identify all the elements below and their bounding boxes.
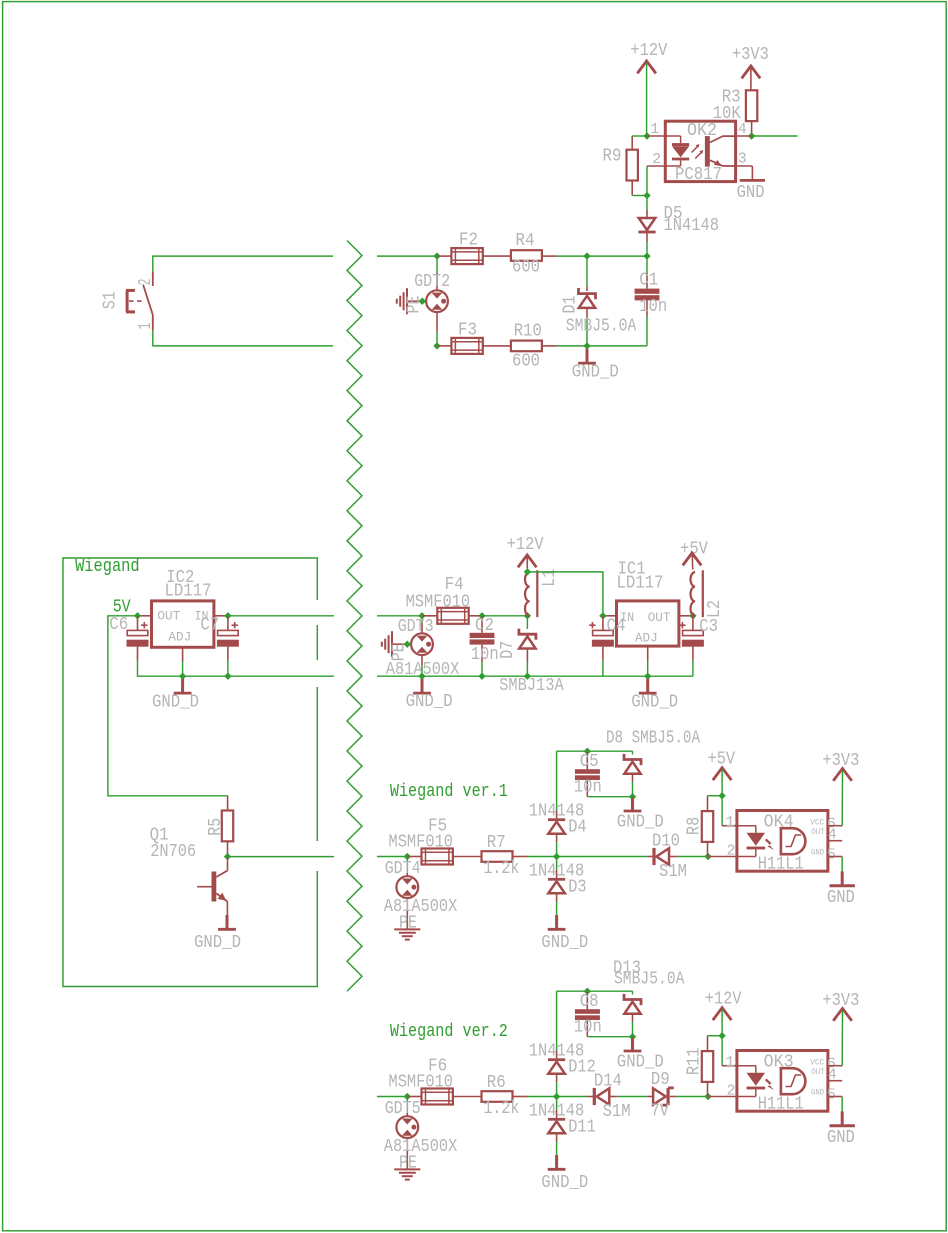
node R11 bottom [704,1093,711,1100]
wire C2 node to L1 node [482,615,527,617]
wire 5V net [108,616,228,796]
ground GND_D Q1 [226,915,229,928]
node IC1 IN [599,612,606,619]
svg-text:GND: GND [827,1128,855,1148]
wire pin5 to ground [841,857,843,872]
power +12V arrow [713,1008,732,1020]
node L1 bottom [524,612,531,619]
wire R3 to pin4 [751,121,753,136]
ground GND OK4 [841,871,844,884]
svg-text:D10: D10 [652,831,680,851]
fuse F6 [407,1096,422,1098]
ground GND_D row1 [586,349,589,362]
svg-text:H11L1: H11L1 [758,1094,804,1114]
svg-text:PE: PE [404,296,424,314]
capacitor C2 [481,616,483,633]
svg-text:GND: GND [737,183,765,203]
transistor Q1 [227,857,229,871]
svg-text:2N706: 2N706 [150,842,196,862]
svg-text:C8: C8 [580,992,599,1012]
node C2 top [478,612,485,619]
resistor R3 [746,90,757,121]
wire cable to GDT5 [377,1096,407,1098]
capacitor C8 [586,991,588,1009]
node IC2 IN [224,612,231,619]
svg-text:SMBJ5.0A: SMBJ5.0A [614,969,685,989]
svg-text:SMBJ5.0A: SMBJ5.0A [566,316,637,336]
OK2 internal light arrows [692,146,703,159]
node IC1 OUT [689,612,696,619]
svg-text:R8: R8 [685,817,705,835]
wire R9 bottom [631,181,633,196]
node IC2 OUT [134,612,141,619]
svg-text:LD117: LD117 [617,573,664,593]
wire clamp node to D14 [557,1096,587,1098]
svg-text:10n: 10n [471,645,499,665]
svg-text:OUT: OUT [157,609,180,624]
pin 4 OK2 [736,135,752,137]
capacitor C7 [227,616,229,631]
node C2 bottom [478,673,485,680]
svg-text:D14: D14 [594,1071,622,1091]
node clamp junction [553,853,560,860]
wire L1 to IC1 IN [527,572,603,616]
power +12V arrow [637,61,656,73]
switch S1 lever [143,285,153,315]
switch S1 pin 1 [152,315,154,331]
node D8 ground [629,793,636,800]
svg-text:OK3: OK3 [764,1053,794,1073]
svg-text:F3: F3 [458,321,477,341]
node ADJ ground [179,673,186,680]
svg-text:4: 4 [738,121,747,138]
gas discharge tube GDT4 [406,857,408,864]
wire D1 node to C1 node [587,255,647,257]
ground GND_D GDT3 [421,679,424,692]
switch S1 dashed link [129,300,144,302]
node C7 ground [224,673,231,680]
resistor R7 [482,851,513,862]
ground GND OK3 [841,1111,844,1124]
resistor R5 [222,811,233,842]
svg-text:OUT: OUT [811,827,825,837]
svg-text:+12V: +12V [507,535,544,555]
svg-text:600: 600 [512,351,540,371]
wire supply to pin1 [721,1010,723,1036]
svg-text:R5: R5 [206,818,226,836]
wire F5 to R7 [453,856,482,858]
svg-text:7V: 7V [651,1102,669,1122]
node R9-D5 junction [643,192,650,199]
node GND_D row1 [583,342,590,349]
ground GND_D IC2 [181,679,184,692]
svg-text:1: 1 [650,121,659,138]
fuse F2 [437,255,451,257]
svg-text:GND: GND [827,888,855,908]
svg-text:600: 600 [512,257,540,277]
wire middle ground rail [377,675,693,677]
capacitor C3 [692,616,694,631]
earth PE at GDT2 [407,300,422,302]
svg-text:D4: D4 [568,818,586,838]
earth PE at GDT4 [394,928,420,930]
power +5V arrow [713,768,732,780]
svg-text:D8 SMBJ5.0A: D8 SMBJ5.0A [606,728,700,748]
zener diode D9 [647,1096,653,1098]
svg-text:1.2k: 1.2k [483,1099,519,1119]
switch S1 fixed contact [126,290,129,312]
svg-text:GND_D: GND_D [631,693,678,713]
wire cable to GDT3 [377,615,422,617]
wire R7 to clamp node [513,856,527,858]
wire F6 to R6 [453,1096,482,1098]
wire +3V3 to pin6 [841,770,843,825]
wire row1 to F2 [377,255,437,257]
node clamp junction [553,1093,560,1100]
node GDT2 top [433,252,440,259]
diode D12 [556,991,558,1050]
svg-text:GND: GND [811,1087,824,1097]
svg-text:C2: C2 [475,616,494,636]
zener diode D7 [526,616,528,629]
svg-text:2: 2 [136,279,156,286]
fuse F4 [422,615,437,617]
node Q1 collector [224,853,231,860]
fuse F3 [437,345,451,347]
svg-text:10n: 10n [574,1018,602,1038]
svg-text:1: 1 [136,322,156,329]
svg-text:PC817: PC817 [675,165,722,185]
wire +3V3 to R3 [750,68,752,91]
wire clamp rail [557,750,633,752]
svg-text:S1M: S1M [659,862,687,882]
pin 2 OK2 [647,165,665,167]
node pin1 junction [643,132,650,139]
voltage regulator IC2 body [152,601,214,647]
wire pin5 to ground [841,1097,843,1112]
node GDT2 bottom [433,342,440,349]
svg-text:1N4148: 1N4148 [664,216,720,236]
power +3V3 arrow OK3 [833,1008,852,1020]
cable boundary zigzag [347,241,362,992]
wire pin4 stub right [752,135,798,137]
gas discharge tube GDT5 [406,1097,408,1104]
OK4 internal LED [737,825,756,827]
wire R10 to GND node [542,345,557,347]
OK4 internal bolt [765,839,774,851]
earth PE at GDT5 [394,1168,420,1170]
wire S1 pin1 to cable bottom [153,331,333,346]
wire IN net to cable [228,615,334,617]
wire F2 to R4 [483,255,512,257]
node supply junction [718,792,725,799]
wire R9 top [631,136,633,150]
wire 5V to R5 [227,796,229,811]
svg-text:GND_D: GND_D [152,693,199,713]
svg-text:+12V: +12V [630,41,667,61]
node GDT3 top [418,612,425,619]
node IC1 ADJ ground [644,673,651,680]
node pin4 junction [748,132,755,139]
svg-text:OK2: OK2 [687,121,717,141]
svg-text:GND_D: GND_D [541,933,588,953]
svg-text:F2: F2 [459,230,478,250]
svg-text:MSMF010: MSMF010 [406,593,471,613]
svg-text:1: 1 [726,814,735,831]
node supply junction [718,1032,725,1039]
switch S1 pin 2 [152,272,154,287]
diode D11 [556,1097,558,1110]
opto-coupler OK3 body [737,1051,828,1112]
svg-text:D11: D11 [568,1118,596,1138]
svg-text:+3V3: +3V3 [732,45,769,65]
node D7 bottom [524,673,531,680]
OK3 internal LED [737,1065,756,1067]
resistor R8 [702,811,713,842]
svg-text:Wiegand: Wiegand [75,557,140,577]
node C1 top [643,252,650,259]
svg-text:R11: R11 [685,1047,705,1075]
op-to-coupler OK2 body [665,121,735,181]
svg-text:D3: D3 [568,878,586,898]
power +5V arrow L2 [683,553,702,565]
svg-text:LD117: LD117 [165,582,212,602]
pin 2 OK3 [708,1096,737,1098]
power +3V3 arrow [742,66,761,78]
OK2 internal LED [665,135,680,137]
svg-text:2: 2 [652,151,661,168]
svg-text:C1: C1 [639,271,658,291]
svg-text:Wiegand ver.1: Wiegand ver.1 [390,782,508,802]
voltage regulator IC1 body [617,601,679,646]
wire R6 to clamp node [513,1096,527,1098]
svg-text:GND: GND [811,847,824,857]
wire Q1 node to cable [228,856,335,858]
svg-text:A81A500X: A81A500X [384,1137,458,1157]
inductor L1 [525,572,530,616]
fuse F5 [407,856,422,858]
ground GND_D IC1 [646,679,649,692]
ground GND_D D11 [555,1155,558,1168]
power +3V3 arrow OK4 [833,768,852,780]
svg-text:S1: S1 [100,291,120,309]
capacitor C5 [586,751,588,769]
power +12V arrow L1 [518,555,537,567]
diode D3 [556,857,558,870]
svg-text:10n: 10n [639,297,667,317]
svg-text:VCC: VCC [810,818,824,828]
ground GND at OK2 pin3 [740,179,765,182]
wire clamp node to D10 [557,856,647,858]
opto-coupler OK4 body [737,811,828,872]
node clamp rail cap [584,748,591,755]
resistor R9 [627,150,638,181]
node D1 top [583,252,590,259]
wire R5 to collector node [227,842,229,857]
capacitor C1 [646,256,648,272]
wire F3 to R10 [483,345,512,347]
zener diode D8 [632,751,634,754]
svg-text:10n: 10n [574,778,602,798]
svg-text:S1M: S1M [603,1102,631,1122]
wire R8 top to supply [708,795,723,797]
wire GND node to C1 bottom [587,345,647,347]
wire R11 top to supply [708,1035,723,1037]
svg-text:R9: R9 [603,147,622,167]
wire clamp rail [557,990,633,992]
svg-text:SMBJ13A: SMBJ13A [499,676,564,696]
svg-text:GND_D: GND_D [541,1173,588,1193]
svg-text:C4: C4 [607,617,626,637]
wire supply to pin1 [721,770,723,796]
capacitor C4 [602,616,604,631]
svg-text:3: 3 [738,150,747,167]
resistor R4 [511,250,542,261]
svg-text:VCC: VCC [810,1058,824,1068]
ground GND_D D8 [631,797,634,810]
svg-text:MSMF010: MSMF010 [389,832,454,852]
svg-text:1: 1 [726,1054,735,1071]
svg-text:A81A500X: A81A500X [384,897,458,917]
svg-text:ADJ: ADJ [635,631,658,646]
zener diode D13 [632,991,634,994]
svg-text:GDT3: GDT3 [398,617,434,637]
node GDT3 bottom [418,673,425,680]
resistor R10 [511,341,542,352]
wire cable to GDT4 [377,856,407,858]
Wiegand frame [63,558,317,987]
node clamp rail cap [584,988,591,995]
svg-text:2: 2 [727,1082,736,1099]
node L1 top [524,568,531,575]
svg-text:D12: D12 [568,1058,596,1078]
node R8 bottom [704,853,711,860]
pin 1 OK3 [722,1065,737,1067]
svg-text:D7: D7 [498,641,518,659]
svg-text:C3: C3 [699,617,718,637]
svg-text:1.2k: 1.2k [483,859,519,879]
pin 1 OK2 [647,135,665,137]
inductor L2 [690,572,695,616]
svg-text:5: 5 [827,1086,836,1103]
gas discharge tube GDT2 [436,256,438,272]
wire F4 to C2 node [469,615,482,617]
OK3 internal bolt [765,1079,774,1091]
svg-text:C5: C5 [580,752,599,772]
svg-text:MSMF010: MSMF010 [389,1072,454,1092]
resistor R6 [482,1091,513,1102]
svg-text:PE: PE [389,643,409,661]
node D13 ground [629,1033,636,1040]
diode D4 [556,751,558,810]
svg-text:H11L1: H11L1 [758,854,804,874]
diode D5 [646,196,648,211]
wire pin2 down [646,166,648,196]
svg-text:GND_D: GND_D [194,933,241,953]
svg-text:2: 2 [727,842,736,859]
ground GND_D D13 [631,1037,634,1050]
gas discharge tube GDT3 [421,616,423,623]
resistor R11 [702,1051,713,1082]
svg-text:GDT2: GDT2 [414,272,450,292]
svg-text:C7: C7 [200,616,219,636]
svg-text:R7: R7 [487,833,506,853]
wire R4 to D1 node [542,255,557,257]
capacitor C6 [137,616,139,631]
ground GND_D D3 [555,915,558,928]
svg-text:R4: R4 [516,231,535,251]
OK3 internal detector [781,1068,806,1094]
svg-text:R10: R10 [514,322,542,342]
svg-text:R6: R6 [487,1073,506,1093]
svg-text:OUT: OUT [648,610,671,625]
svg-text:OK4: OK4 [764,813,794,833]
svg-text:Wiegand ver.2: Wiegand ver.2 [390,1022,508,1042]
svg-text:+5V: +5V [708,749,736,769]
node GDT4 top [404,853,411,860]
earth PE at GDT3 [392,643,407,645]
diode D14 [587,1096,593,1098]
svg-text:C6: C6 [109,615,128,635]
svg-text:OUT: OUT [811,1067,825,1077]
svg-text:GDT5: GDT5 [385,1099,421,1119]
svg-text:GND_D: GND_D [406,692,453,712]
svg-text:+12V: +12V [705,989,742,1009]
svg-text:D9: D9 [651,1070,670,1090]
node GDT5 top [404,1093,411,1100]
wire +12V to OK2 pin1 [646,63,648,136]
zener diode D1 [586,256,588,286]
svg-text:5: 5 [827,846,836,863]
OK4 internal detector [781,828,806,854]
wire +3V3 to pin6 [841,1010,843,1065]
wire IC2 ground rail [183,675,334,677]
pin 3 OK2 [736,165,753,167]
svg-text:L2: L2 [705,600,725,618]
svg-text:D1: D1 [561,295,581,313]
svg-text:GND_D: GND_D [572,363,619,383]
OK2 internal phototransistor [705,136,710,167]
pin 1 OK4 [722,825,737,827]
pin 2 OK4 [708,856,737,858]
svg-text:GDT4: GDT4 [385,859,421,879]
svg-text:ADJ: ADJ [168,630,191,645]
wire S1 pin2 to cable top [153,256,333,271]
diode D10 [647,856,652,858]
svg-text:GND_D: GND_D [617,812,664,832]
